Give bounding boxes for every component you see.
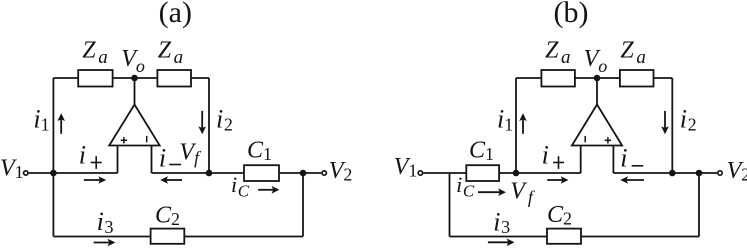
wire left vertical (b) (515, 78, 517, 173)
resistor Za left (b) (541, 70, 575, 87)
svg-text:C2: C2 (547, 202, 572, 229)
svg-text:Vo: Vo (584, 46, 608, 76)
current arrow i2 (b) (661, 111, 669, 134)
svg-text:C1: C1 (247, 138, 272, 165)
wire top rail left segment (b) (516, 77, 541, 79)
wire bottom rail right segment (a) (184, 236, 303, 238)
junction node Vo (b) (594, 75, 601, 82)
wire mid rail to plus input (a) (53, 172, 117, 174)
junction node V2 (a) (300, 170, 307, 177)
wire right vertical (a) (208, 78, 210, 173)
capacitor C2 (a) (151, 229, 185, 244)
op-amp inverting input stub (a) (151, 146, 153, 174)
svg-text:Za: Za (545, 37, 570, 68)
wire top rail middle segment (a) (113, 77, 158, 79)
wire bottom rail left segment (b) (450, 236, 548, 238)
wire top rail middle segment (b) (575, 77, 620, 79)
svg-text:i: i (79, 141, 86, 170)
wire node to plus input (b) (516, 172, 581, 174)
junction node Vo (a) (131, 75, 138, 82)
svg-text:Vf: Vf (179, 140, 202, 168)
capacitor C2 (b) (547, 229, 581, 244)
resistor Za right (a) (157, 70, 191, 87)
resistor Za right (b) (620, 70, 654, 87)
current arrow i1 (a) (57, 113, 65, 134)
current arrow i1 (b) (519, 113, 527, 134)
svg-text:V1: V1 (394, 154, 418, 181)
junction node right-bottom (b) (696, 170, 703, 177)
svg-text:Za: Za (82, 37, 107, 68)
junction node Vf (b) (513, 170, 520, 177)
op-amp triangle U2 (b) (572, 105, 622, 146)
svg-text:Za: Za (620, 37, 645, 68)
wire top rail left segment (a) (53, 77, 78, 79)
svg-text:i: i (620, 144, 627, 173)
current arrow i2 (a) (198, 111, 206, 134)
wire left vertical (a) (52, 78, 54, 237)
current arrow iC (a) (258, 186, 279, 194)
op-amp noninverting input stub (b) (580, 146, 582, 174)
terminal circle V1 (a) (24, 171, 28, 175)
wire bottom-left vertical (b) (449, 173, 451, 237)
wire right vertical (b) (671, 78, 673, 173)
junction node V1 (a) (50, 170, 57, 177)
svg-text:Za: Za (158, 37, 183, 68)
wire top rail right segment (a) (191, 77, 209, 79)
svg-text:V2: V2 (329, 158, 353, 185)
capacitor C1 (b) (466, 165, 499, 181)
current arrow i- (a) (160, 176, 182, 184)
op-amp minus mark (a) (146, 136, 148, 142)
op-amp triangle U1 (a) (109, 105, 160, 146)
current arrow i3 (a) (94, 239, 116, 247)
svg-text:i3: i3 (493, 207, 510, 237)
resistor Za left (a) (78, 70, 112, 87)
svg-text:i3: i3 (97, 207, 114, 237)
svg-text:(b): (b) (554, 0, 589, 29)
svg-text:Vo: Vo (121, 46, 145, 76)
terminal V1 lead (a) (29, 172, 54, 174)
current arrow iC (b) (478, 188, 506, 196)
wire C1 to V2 terminal (a) (279, 172, 321, 174)
current arrow i3 (b) (488, 239, 515, 247)
op-amp plus mark (b) (605, 137, 611, 143)
junction node Vf (a) (206, 170, 213, 177)
op-amp inverting input stub (b) (612, 146, 614, 174)
svg-text:V1: V1 (0, 155, 24, 182)
svg-text:Vf: Vf (510, 179, 536, 208)
junction node right-top (b) (669, 170, 676, 177)
op-amp minus mark (b) (584, 136, 586, 142)
op-amp plus mark (a) (121, 137, 127, 143)
current arrow i+ (b) (547, 176, 568, 184)
svg-text:i2: i2 (680, 105, 697, 135)
terminal circle V2 (b) (718, 171, 722, 175)
current arrow i- (b) (620, 176, 644, 184)
svg-text:(a): (a) (159, 0, 192, 29)
svg-text:i: i (159, 144, 166, 173)
wire bottom rail left segment (a) (53, 236, 150, 238)
terminal V1 lead (b) (423, 172, 466, 174)
op-amp noninverting input stub (a) (117, 146, 119, 174)
op-amp output lead (b) (596, 78, 598, 105)
terminal circle V2 (a) (322, 171, 326, 175)
wire bottom-right vertical (a) (302, 173, 304, 237)
svg-text:V2: V2 (727, 158, 747, 185)
svg-text:C1: C1 (469, 138, 494, 165)
svg-text:i1: i1 (33, 105, 49, 135)
wire bottom-right vertical (b) (698, 173, 700, 237)
wire C1 to node (b) (499, 172, 516, 174)
svg-text:i: i (542, 141, 549, 170)
svg-text:C2: C2 (155, 203, 180, 230)
svg-text:i2: i2 (216, 105, 233, 135)
capacitor C1 (a) (244, 165, 279, 181)
terminal circle V1 (b) (418, 171, 422, 175)
svg-text:i1: i1 (497, 105, 513, 135)
op-amp output lead (a) (134, 78, 136, 105)
wire minus input to V2 terminal (b) (613, 172, 717, 174)
wire bottom rail right segment (b) (581, 236, 699, 238)
current arrow i+ (a) (84, 176, 106, 184)
wire minus input to node Vf (a) (152, 172, 245, 174)
wire top rail right segment (b) (654, 77, 673, 79)
